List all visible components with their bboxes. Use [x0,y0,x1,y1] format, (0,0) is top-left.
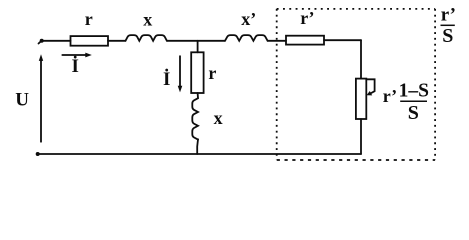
svg-text:r’: r’ [300,8,314,28]
svg-text:r’: r’ [383,86,397,106]
svg-text:x: x [214,108,223,128]
svg-text:S: S [408,102,419,124]
svg-text:r’: r’ [441,5,456,26]
svg-text:r: r [208,63,216,83]
svg-text:İ: İ [72,56,79,77]
svg-text:1–S: 1–S [399,81,430,102]
svg-text:İ: İ [163,69,170,90]
svg-text:x: x [143,10,152,30]
svg-text:U: U [15,89,29,110]
svg-text:r: r [85,9,93,29]
svg-text:x’: x’ [241,9,256,29]
svg-text:S: S [442,25,453,47]
